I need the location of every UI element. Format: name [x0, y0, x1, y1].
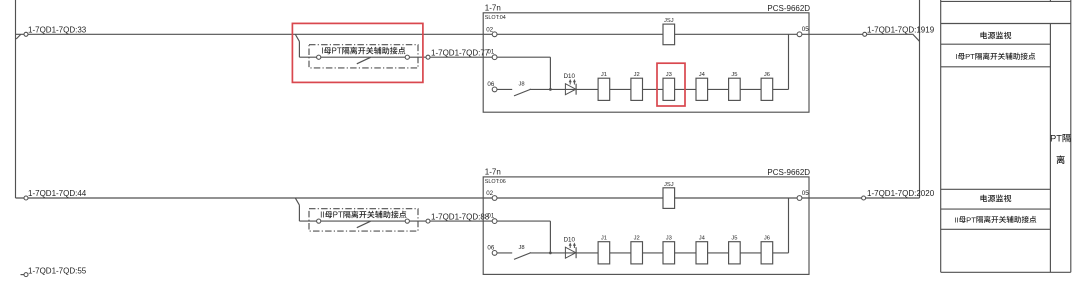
- svg-text:01: 01: [487, 213, 494, 220]
- svg-text:PCS-9662D: PCS-9662D: [767, 168, 810, 177]
- svg-text:J4: J4: [699, 236, 706, 242]
- svg-text:J2: J2: [634, 236, 640, 242]
- svg-text:J1: J1: [601, 236, 607, 242]
- svg-text:1-7QD1-7QD:2020: 1-7QD1-7QD:2020: [867, 189, 935, 198]
- svg-text:1-7n: 1-7n: [485, 4, 501, 13]
- svg-text:06: 06: [487, 81, 494, 88]
- svg-text:05: 05: [802, 190, 809, 197]
- svg-text:J4: J4: [699, 72, 706, 78]
- svg-text:PCS-9662D: PCS-9662D: [767, 4, 810, 13]
- svg-text:PT: PT: [1050, 133, 1062, 143]
- svg-text:J8: J8: [519, 81, 525, 87]
- svg-text:1-7n: 1-7n: [485, 168, 501, 177]
- svg-text:06: 06: [487, 245, 494, 252]
- svg-text:1-7QD1-7QD:88: 1-7QD1-7QD:88: [431, 213, 490, 222]
- svg-text:I: I: [955, 52, 957, 61]
- svg-text:02: 02: [486, 190, 493, 197]
- svg-text:1-7QD1-7QD:77: 1-7QD1-7QD:77: [431, 49, 490, 58]
- svg-text:J1: J1: [601, 72, 607, 78]
- svg-text:J3: J3: [666, 236, 672, 242]
- svg-text:1-7QD1-7QD:55: 1-7QD1-7QD:55: [28, 267, 87, 276]
- svg-text:JSJ: JSJ: [664, 18, 674, 24]
- svg-text:SLOT:06: SLOT:06: [485, 179, 506, 185]
- svg-text:II: II: [954, 215, 958, 224]
- svg-text:D10: D10: [564, 237, 576, 244]
- svg-text:J5: J5: [731, 72, 737, 78]
- svg-text:PT: PT: [333, 211, 343, 220]
- svg-text:PT: PT: [966, 215, 976, 224]
- svg-text:PT: PT: [332, 47, 342, 56]
- svg-text:01: 01: [487, 49, 494, 56]
- svg-text:1-7QD1-7QD:44: 1-7QD1-7QD:44: [28, 189, 87, 198]
- svg-text:1-7QD1-7QD:33: 1-7QD1-7QD:33: [28, 26, 87, 35]
- svg-text:PT: PT: [965, 52, 975, 61]
- svg-text:D10: D10: [564, 73, 576, 80]
- svg-text:J8: J8: [519, 245, 525, 251]
- svg-text:J6: J6: [764, 236, 770, 242]
- svg-text:SLOT:04: SLOT:04: [485, 15, 506, 21]
- svg-text:05: 05: [802, 26, 809, 33]
- svg-text:J2: J2: [634, 72, 640, 78]
- svg-text:J3: J3: [666, 72, 672, 78]
- svg-text:I: I: [321, 47, 323, 56]
- svg-text:J5: J5: [731, 236, 737, 242]
- svg-text:II: II: [320, 211, 324, 220]
- svg-text:1-7QD1-7QD:1919: 1-7QD1-7QD:1919: [867, 26, 935, 35]
- svg-text:JSJ: JSJ: [664, 182, 674, 188]
- svg-text:02: 02: [486, 26, 493, 33]
- svg-text:J6: J6: [764, 72, 770, 78]
